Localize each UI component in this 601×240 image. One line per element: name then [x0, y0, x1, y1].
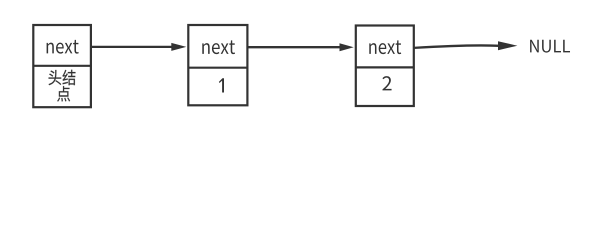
node box 1 (head node) outer rectangle: [33, 25, 91, 107]
node box 1 (head node) divider line: [33, 65, 91, 67]
label "结" (box 1 line 1): [62, 70, 75, 85]
wire arrow 1 shaft (box1 next -> box2): [91, 46, 173, 48]
node box 3 (data 2) divider line: [356, 66, 414, 68]
wire arrow 2 shaft (box2 next -> box3): [247, 46, 341, 48]
label "1" in box 2: [219, 78, 224, 92]
arrow 2 head: [340, 43, 354, 51]
label "头" (box 1 line 1): [49, 70, 62, 85]
label "next" in box 1: [47, 40, 79, 54]
label "点" (box 1 line 2): [57, 86, 70, 101]
node box 2 (data 1) outer rectangle: [188, 25, 247, 105]
label "NULL" text: [530, 40, 570, 53]
linked-list diagram: [0, 0, 601, 127]
arrow 1 head: [171, 43, 186, 51]
label "2" in box 3: [382, 76, 391, 90]
node box 2 (data 1) divider line: [188, 67, 247, 69]
label "next" in box 3: [369, 40, 401, 54]
arrow 3 head: [498, 41, 517, 50]
label "next" in box 2: [202, 40, 235, 54]
wire arrow 3 curved shaft (box3 next -> NULL): [414, 45, 499, 47]
node box 3 (data 2) outer rectangle: [356, 26, 414, 107]
